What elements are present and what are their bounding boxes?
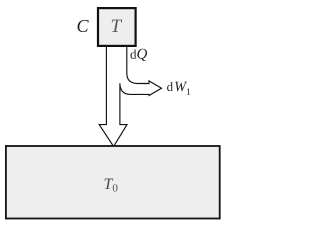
label subscript 0 xyxy=(113,184,118,191)
label dQ xyxy=(131,49,148,61)
reservoir box T0 xyxy=(6,146,220,219)
label T xyxy=(112,20,123,32)
label subscript 1 xyxy=(187,88,190,94)
label C xyxy=(78,20,89,32)
heat flow arrow dQ (hollow down-arrow with branch to dW1) xyxy=(99,45,161,147)
reservoir box T (system C) xyxy=(98,8,136,46)
label dW xyxy=(167,82,187,91)
label T0 xyxy=(105,179,114,190)
